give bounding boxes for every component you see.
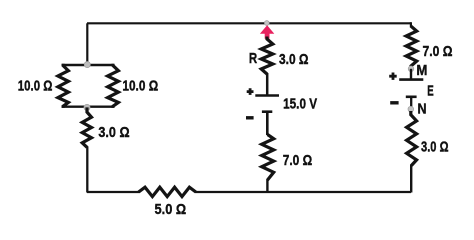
wire left vertical drop xyxy=(86,23,88,65)
resistor 10.0 ohm right xyxy=(108,64,119,108)
wire node M to battery E xyxy=(410,69,412,80)
node M xyxy=(408,66,414,72)
wire parallel block bottom rail xyxy=(62,105,114,107)
battery E positive plate xyxy=(399,78,423,81)
battery 15.0 V positive plate xyxy=(255,94,279,97)
resistor 3.0 ohm right xyxy=(407,111,417,166)
node top of parallel block xyxy=(84,62,90,68)
svg-text:N: N xyxy=(418,100,427,117)
resistor 7.0 ohm right xyxy=(410,22,412,27)
node top junction middle branch xyxy=(264,21,269,26)
node bottom of parallel block xyxy=(84,104,90,110)
svg-text:7.0 Ω: 7.0 Ω xyxy=(283,152,313,169)
current arrow (pink, pointing up) xyxy=(260,25,274,39)
resistor 7.0 ohm middle xyxy=(262,135,274,181)
minus sign middle battery xyxy=(246,116,254,119)
resistor 10.0 ohm left xyxy=(58,64,69,108)
wire parallel block top rail xyxy=(62,64,114,66)
svg-text:10.0 Ω: 10.0 Ω xyxy=(122,77,158,94)
wire battery E to node N xyxy=(410,97,412,109)
svg-text:10.0 Ω: 10.0 Ω xyxy=(18,78,53,95)
plus sign middle battery xyxy=(247,88,254,95)
wire bottom left segment xyxy=(87,191,140,193)
svg-text:3.0 Ω: 3.0 Ω xyxy=(421,138,449,155)
svg-text:E: E xyxy=(427,83,434,100)
node N xyxy=(408,106,414,112)
battery 15.0 V negative plate xyxy=(262,110,272,113)
svg-text:5.0 Ω: 5.0 Ω xyxy=(155,201,187,218)
svg-text:M: M xyxy=(416,62,427,79)
wire bottom right segment xyxy=(195,191,411,193)
minus sign right battery xyxy=(390,101,398,104)
resistor 3.0 ohm left branch xyxy=(82,107,91,147)
wire top horizontal xyxy=(87,22,411,24)
svg-text:7.0 Ω: 7.0 Ω xyxy=(423,43,453,60)
plus sign right battery xyxy=(389,73,397,80)
svg-text:R: R xyxy=(249,50,257,67)
resistor 5.0 ohm bottom xyxy=(139,187,196,196)
svg-text:3.0 Ω: 3.0 Ω xyxy=(98,124,129,141)
battery E negative plate xyxy=(406,96,417,99)
svg-text:3.0 Ω: 3.0 Ω xyxy=(279,51,309,68)
svg-text:15.0 V: 15.0 V xyxy=(283,96,317,113)
wire middle battery to resistor xyxy=(266,112,269,135)
resistor R 3.0 ohm middle xyxy=(261,37,273,75)
